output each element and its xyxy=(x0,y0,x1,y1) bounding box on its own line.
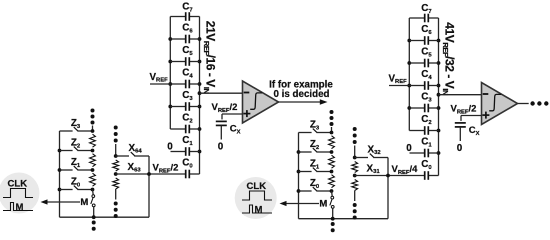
comparator minus pin label xyxy=(483,93,489,95)
resistor between X32 and X31 (stage 2) xyxy=(352,162,358,173)
wire M control with arrow (stage 1) xyxy=(47,201,81,203)
svg-text:C0: C0 xyxy=(182,158,193,170)
svg-text:C7: C7 xyxy=(182,2,193,14)
svg-text:C5: C5 xyxy=(182,45,193,57)
svg-text:M: M xyxy=(16,202,24,213)
svg-text:C3: C3 xyxy=(182,90,193,102)
svg-text:Z0: Z0 xyxy=(310,178,320,190)
switch Z0 (stage 2) xyxy=(299,190,312,192)
node: X switch column with ellipsis (stage 2) xyxy=(353,127,357,131)
switch Z3 (stage 1) xyxy=(60,130,73,132)
comparator U1 output wire with arrow xyxy=(279,101,321,103)
capacitor C4 (stage 2) xyxy=(409,85,424,87)
svg-text:C1: C1 xyxy=(421,137,432,149)
svg-text:41VREF/32 - VIN: 41VREF/32 - VIN xyxy=(441,22,456,95)
resistor between Z1 and Z0 (stage 2) xyxy=(329,175,335,188)
switch X63 (closed) (stage 1) xyxy=(114,172,118,176)
CLK waveform (stage 1) xyxy=(3,189,33,198)
wire ladder bottom rail (stage 1) xyxy=(60,216,150,218)
CLK timing bubble (stage 1) xyxy=(0,173,40,214)
resistor below X63 (stage 1) xyxy=(113,178,119,189)
svg-text:C7: C7 xyxy=(421,3,432,15)
wire M control with arrow (stage 2) xyxy=(286,203,320,205)
svg-text:CLK: CLK xyxy=(247,181,267,192)
capacitor C0 (stage 1) xyxy=(149,173,186,175)
resistor between X64 and X63 (stage 1) xyxy=(113,160,119,171)
svg-text:0: 0 xyxy=(457,143,463,154)
comparator U2 output wire xyxy=(518,103,529,105)
M waveform (stage 2) xyxy=(242,205,272,213)
wire VREF to left rail (stage 1) xyxy=(150,83,170,85)
capacitor C2 (stage 2) xyxy=(409,130,424,132)
wire right column down (stage 1) xyxy=(148,156,150,217)
capacitor C3 (stage 2) xyxy=(409,107,424,109)
resistor between Z2 and Z1 (stage 1) xyxy=(90,154,96,167)
switch Z3 (stage 2) xyxy=(299,132,312,134)
node: ladder left rail (stage 1) xyxy=(59,131,61,217)
switch M in tap column (stage 2) xyxy=(331,191,334,196)
svg-text:VREF/2: VREF/2 xyxy=(153,163,179,175)
switch Z0 (stage 1) xyxy=(60,189,73,191)
svg-text:VREF/4: VREF/4 xyxy=(392,164,419,176)
capacitor C4 (stage 1) xyxy=(170,83,185,85)
resistor between Z3 and Z2 (stage 1) xyxy=(90,134,96,147)
wire CX to 0 (stage 2) xyxy=(459,127,461,141)
svg-text:CLK: CLK xyxy=(8,179,28,190)
svg-text:Z2: Z2 xyxy=(71,138,81,150)
ellipsis below X column (stage 1) xyxy=(114,202,118,206)
svg-text:Z0: Z0 xyxy=(71,177,81,189)
capacitor C7 (stage 1) xyxy=(170,16,185,18)
capacitor C5 (stage 2) xyxy=(409,62,424,64)
capacitor C0 (stage 2) xyxy=(388,175,425,177)
node: cap-array right rail / top-plate bus (stage 2) xyxy=(438,18,440,176)
wire top-plate bus to comparator - input (stage 1) xyxy=(200,92,243,94)
svg-text:VREF/2: VREF/2 xyxy=(212,102,238,114)
svg-text:M: M xyxy=(319,199,327,210)
svg-text:0: 0 xyxy=(218,142,224,153)
svg-text:VREF: VREF xyxy=(150,72,169,84)
comparator plus pin label xyxy=(243,113,250,115)
svg-text:Z1: Z1 xyxy=(310,159,320,171)
svg-text:X63: X63 xyxy=(128,162,142,174)
svg-text:C1: C1 xyxy=(182,135,193,147)
svg-text:Z3: Z3 xyxy=(71,118,81,130)
svg-text:C2: C2 xyxy=(421,114,432,126)
node: ladder left rail (stage 2) xyxy=(298,133,300,219)
comparator minus pin label xyxy=(244,92,250,94)
resistor between Z2 and Z1 (stage 2) xyxy=(329,155,335,168)
resistor between Z1 and Z0 (stage 1) xyxy=(90,173,96,186)
switch Z2 (stage 1) xyxy=(60,150,73,152)
capacitor C3 (stage 1) xyxy=(170,106,185,108)
wire ladder bottom rail (stage 2) xyxy=(299,218,389,220)
svg-text:0: 0 xyxy=(167,142,173,153)
ellipsis below ladder (stage 1) xyxy=(92,221,96,225)
switch X31 (closed) (stage 2) xyxy=(353,174,357,178)
svg-text:C6: C6 xyxy=(421,24,432,36)
svg-text:M: M xyxy=(80,197,88,208)
wire CX to 0 (stage 1) xyxy=(220,125,222,139)
svg-text:CX: CX xyxy=(469,125,480,137)
CLK timing bubble (stage 2) xyxy=(235,177,277,219)
switch Z1 (stage 1) xyxy=(60,169,73,171)
svg-text:Z1: Z1 xyxy=(71,157,81,169)
node: ladder tap column with ellipsis (stage 1) xyxy=(91,109,95,113)
CLK waveform (stage 2) xyxy=(242,191,272,200)
switch X32 (stage 2) xyxy=(353,156,357,160)
capacitor C2 (stage 1) xyxy=(170,128,185,130)
svg-text:0: 0 xyxy=(406,143,412,154)
op-amp comparator U1 with hysteresis (stage 1) xyxy=(243,81,279,123)
svg-text:C0: C0 xyxy=(421,159,432,171)
resistor below X31 (stage 2) xyxy=(352,180,358,191)
ellipsis below X column (stage 2) xyxy=(353,203,357,207)
switch Z2 (stage 2) xyxy=(299,151,312,153)
comparator plus pin label xyxy=(482,114,489,116)
svg-text:X64: X64 xyxy=(129,143,143,155)
svg-text:C4: C4 xyxy=(421,69,432,81)
wire comparator + input, stage 2 xyxy=(461,115,482,117)
switch X64 (stage 1) xyxy=(114,154,118,158)
capacitor C7 (stage 2) xyxy=(409,17,424,19)
node: ladder tap column with ellipsis (stage 2) xyxy=(330,110,334,114)
svg-text:0 is decided: 0 is decided xyxy=(273,89,329,100)
node: cap-array left rail (stage 2) xyxy=(408,18,410,131)
svg-text:VREF: VREF xyxy=(389,73,408,85)
capacitor CX (stage 1) xyxy=(216,120,227,122)
svg-text:C5: C5 xyxy=(421,47,432,59)
node: cap-array left rail (stage 1) xyxy=(169,17,171,130)
svg-text:C3: C3 xyxy=(421,92,432,104)
capacitor C6 (stage 1) xyxy=(170,38,185,40)
capacitor C1 (stage 2) xyxy=(410,152,425,154)
svg-text:M: M xyxy=(255,204,263,215)
resistor between Z3 and Z2 (stage 2) xyxy=(329,136,335,149)
svg-text:Z2: Z2 xyxy=(310,139,320,151)
svg-text:21VREF/16 - VIN: 21VREF/16 - VIN xyxy=(202,21,217,94)
comparator hysteresis symbol xyxy=(250,93,262,109)
svg-text:C2: C2 xyxy=(182,113,193,125)
node: cap-array right rail / top-plate bus (stage 1) xyxy=(199,17,201,175)
wire comparator + input, stage 1 xyxy=(222,113,243,115)
svg-text:CX: CX xyxy=(230,124,241,136)
comparator hysteresis symbol xyxy=(489,94,501,110)
capacitor C5 (stage 1) xyxy=(170,61,185,63)
svg-text:VREF/2: VREF/2 xyxy=(451,104,477,116)
switch Z1 (stage 2) xyxy=(299,171,312,173)
ellipsis continuation dots at output xyxy=(530,101,534,105)
svg-text:C4: C4 xyxy=(182,68,193,80)
op-amp comparator U2 with hysteresis (stage 2) xyxy=(482,83,518,125)
switch M in tap column (stage 1) xyxy=(92,190,95,195)
ellipsis below ladder (stage 2) xyxy=(331,222,335,226)
svg-text:X31: X31 xyxy=(367,163,381,175)
svg-text:C6: C6 xyxy=(182,23,193,35)
wire right column down (stage 2) xyxy=(387,158,389,219)
wire VREF to left rail (stage 2) xyxy=(389,85,409,87)
capacitor CX (stage 2) xyxy=(455,122,466,124)
capacitor C1 (stage 1) xyxy=(171,151,186,153)
capacitor C6 (stage 2) xyxy=(409,40,424,42)
M waveform (stage 1) xyxy=(3,203,33,211)
svg-text:Z3: Z3 xyxy=(310,120,320,132)
node: X switch column with ellipsis (stage 1) xyxy=(114,126,118,130)
wire top-plate bus to comparator - input (stage 2) xyxy=(439,94,482,96)
svg-text:X32: X32 xyxy=(368,144,382,156)
